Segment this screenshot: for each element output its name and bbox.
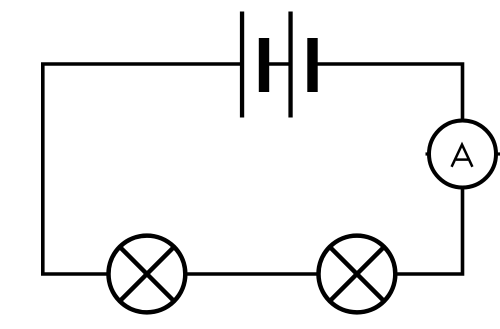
ammeter label A: [452, 145, 473, 167]
lamp L1 cross stroke 2: [120, 247, 174, 301]
lamp L1 circle: [108, 236, 185, 313]
wire: top-left from battery left plate to corner, down left side, to lamp L1: [43, 64, 240, 274]
ammeter left terminal nub: [426, 152, 432, 155]
lamp L2 circle: [319, 236, 396, 313]
lamp L2 cross stroke 1: [330, 247, 384, 301]
ammeter circle: [429, 121, 496, 188]
wire: between lamp L1 and lamp L2: [188, 272, 317, 276]
battery cell 1 positive plate (long): [240, 12, 244, 118]
ammeter right terminal nub: [494, 152, 500, 155]
wire: battery right plate to top-right corner, down to ammeter: [317, 64, 463, 121]
battery cell 1 negative plate (short thick): [259, 38, 269, 92]
battery cell 2 positive plate (long): [288, 12, 292, 118]
wire: ammeter bottom to bottom-right corner, left to lamp L2: [398, 188, 463, 274]
lamp L2 cross stroke 2: [330, 247, 384, 301]
lamp L1 cross stroke 1: [120, 247, 174, 301]
battery cell 2 negative plate (short thick): [307, 38, 317, 92]
wire: inter-cell link between battery cells: [269, 62, 290, 66]
